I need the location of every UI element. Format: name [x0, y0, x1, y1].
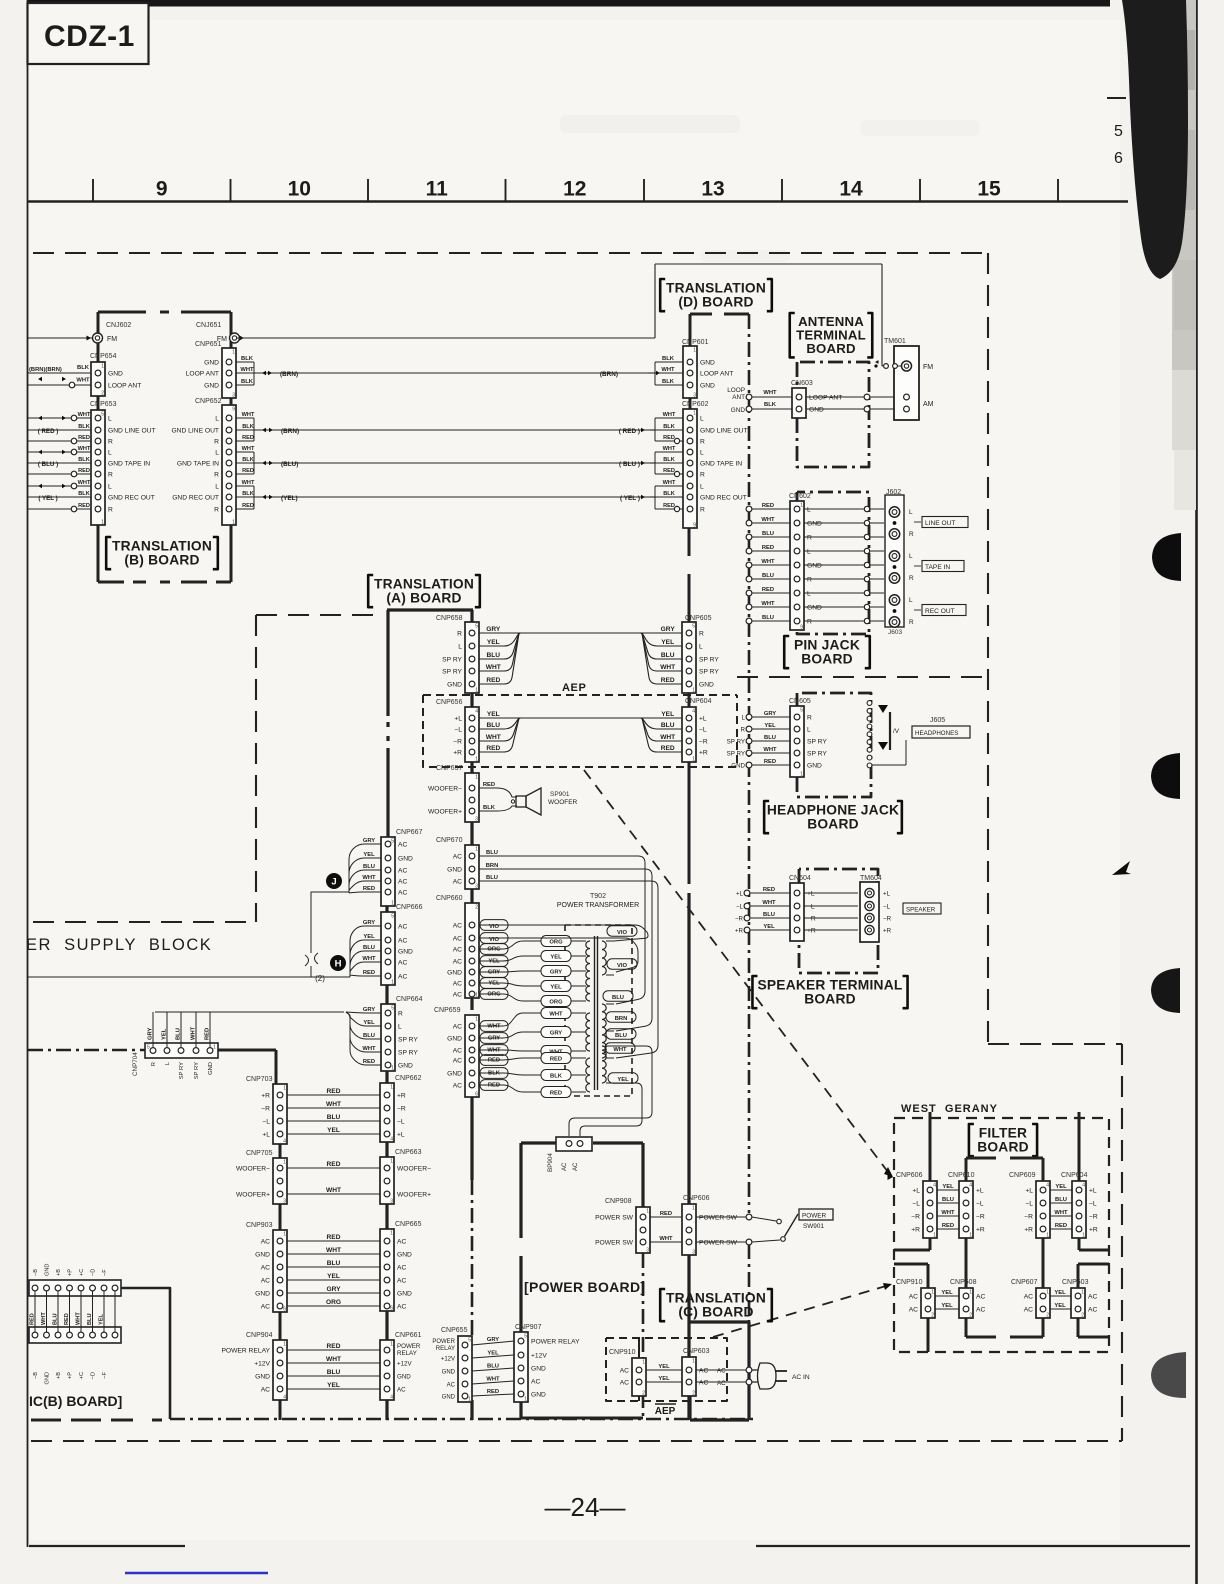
svg-text:GND: GND [807, 562, 822, 569]
svg-text:TM604: TM604 [860, 875, 882, 882]
svg-text:BLU: BLU [327, 1114, 341, 1121]
svg-text:(BRN): (BRN) [280, 371, 298, 378]
svg-text:WHT: WHT [486, 1377, 500, 1383]
svg-text:+R: +R [1024, 1226, 1033, 1233]
svg-text:/V: /V [893, 728, 900, 735]
svg-text:CNP910: CNP910 [609, 1349, 636, 1356]
svg-text:AC: AC [453, 878, 462, 885]
svg-text:YEL: YEL [763, 924, 775, 930]
svg-text:YEL: YEL [162, 1028, 168, 1040]
svg-text:CNP660: CNP660 [436, 895, 463, 902]
top black bar [27, 0, 1110, 7]
svg-text:−L: −L [807, 903, 815, 910]
D board left border segments [689, 314, 692, 346]
svg-text:−R: −R [261, 1105, 270, 1112]
svg-text:L: L [458, 643, 462, 650]
svg-text:BOARD: BOARD [807, 816, 859, 831]
svg-text:−R: −R [1089, 1213, 1098, 1220]
svg-text:−D: −D [91, 1269, 97, 1276]
svg-text:−R: −R [453, 738, 462, 745]
svg-text:BLK: BLK [662, 379, 675, 385]
svg-text:3: 3 [232, 393, 235, 399]
svg-text:BLU: BLU [942, 1197, 954, 1203]
svg-text:AC: AC [398, 923, 407, 930]
bundle wire to CNP704 strip [155, 1011, 344, 1013]
svg-text:WHT: WHT [78, 412, 91, 418]
connector CNP660 [465, 903, 479, 998]
board label TRANSLATION (B) BOARD [106, 537, 111, 569]
svg-text:GND: GND [45, 1372, 51, 1384]
strip connector row 2 [29, 1327, 121, 1343]
svg-text:(C) BOARD: (C) BOARD [678, 1304, 753, 1319]
svg-text:R: R [398, 1010, 403, 1017]
connector CNP670 [465, 845, 479, 889]
svg-text:CNP608: CNP608 [950, 1279, 977, 1286]
svg-text:BLK: BLK [242, 491, 254, 497]
svg-text:L: L [108, 415, 112, 422]
svg-text:WHT: WHT [191, 1026, 197, 1040]
wires CNP908-CNP606 [650, 1216, 682, 1218]
svg-text:+L: +L [262, 1131, 270, 1138]
svg-text:5: 5 [468, 1338, 471, 1344]
binding hole blob 1 [1152, 533, 1181, 581]
svg-text:4: 4 [475, 709, 478, 715]
svg-text:6: 6 [1114, 150, 1123, 167]
filter board frame lines [929, 1112, 932, 1181]
ruler tick [919, 179, 921, 201]
upper-left block dashed: horizontal y922 [33, 921, 256, 923]
transformer primary coils [586, 941, 590, 1001]
connector CNP655 [458, 1336, 472, 1402]
stubs into CNP601 [654, 362, 656, 385]
svg-text:BLU: BLU [363, 1033, 375, 1039]
connector CNP705 [273, 1158, 287, 1204]
svg-text:AC: AC [976, 1293, 985, 1300]
sub-block dashed divider y677 [737, 676, 988, 678]
svg-text:BRN: BRN [486, 863, 499, 869]
svg-text:RED: RED [762, 503, 774, 509]
AEP dashed box (main) [423, 694, 737, 696]
svg-text:SP RY: SP RY [807, 750, 827, 757]
svg-text:+L: +L [1089, 1187, 1097, 1194]
svg-text:AC: AC [397, 1387, 406, 1394]
svg-text:SP RY: SP RY [727, 738, 745, 745]
svg-text:1: 1 [692, 1206, 695, 1212]
svg-text:YEL: YEL [487, 711, 500, 718]
svg-text:GND: GND [809, 406, 824, 413]
svg-text:4: 4 [283, 1395, 286, 1401]
svg-text:WHT: WHT [663, 412, 676, 418]
svg-text:GND: GND [807, 520, 822, 527]
FILTER BOARD label [969, 1124, 974, 1156]
POWER BOARD outline [521, 1141, 556, 1144]
svg-text:CNP654: CNP654 [90, 353, 117, 360]
svg-text:CNP666: CNP666 [396, 904, 423, 911]
svg-text:L: L [700, 483, 704, 490]
svg-text:(D) BOARD: (D) BOARD [678, 294, 753, 309]
scan corner blob [1122, 0, 1188, 279]
svg-text:1: 1 [475, 757, 478, 763]
stubs into CNP602 [654, 418, 656, 441]
svg-text:+L: +L [807, 890, 815, 897]
svg-text:CNP607: CNP607 [1011, 1279, 1038, 1286]
svg-text:T902: T902 [590, 893, 606, 900]
svg-text:YEL: YEL [764, 723, 776, 729]
svg-text:SP RY: SP RY [699, 668, 719, 675]
ruler tick [781, 179, 783, 201]
svg-text:WHT: WHT [663, 480, 676, 486]
svg-text:(B) BOARD: (B) BOARD [124, 552, 199, 567]
svg-text:RED: RED [763, 887, 775, 893]
svg-text:RED: RED [550, 1091, 562, 1097]
blue registration line [125, 1572, 268, 1575]
svg-text:RED: RED [661, 677, 675, 684]
svg-text:WHT: WHT [486, 734, 501, 741]
svg-text:L: L [215, 483, 219, 490]
svg-text:RED: RED [205, 1028, 211, 1040]
svg-text:WHT: WHT [326, 1101, 341, 1108]
svg-text:YEL: YEL [487, 639, 500, 646]
svg-text:RELAY: RELAY [436, 1346, 455, 1352]
svg-text:3: 3 [475, 884, 478, 890]
svg-text:1: 1 [524, 1397, 527, 1403]
svg-text:GRY: GRY [488, 969, 500, 975]
svg-text:1: 1 [468, 1397, 471, 1403]
stubs CNP666 left [350, 926, 381, 975]
svg-text:L: L [700, 449, 704, 456]
svg-text:RED: RED [30, 1313, 36, 1325]
svg-text:YEL: YEL [658, 1376, 670, 1382]
svg-text:CNP602: CNP602 [682, 401, 709, 408]
svg-text:+B: +B [56, 1372, 62, 1379]
dashed diagonal to filter board (2) [713, 1286, 886, 1337]
svg-text:ORG: ORG [549, 1000, 563, 1006]
svg-text:9: 9 [693, 523, 696, 529]
stubs CNP664 left to bundle [346, 1012, 381, 1013]
svg-text:WHT: WHT [362, 956, 376, 962]
pin jack board border [797, 492, 869, 634]
svg-text:−D: −D [91, 1372, 97, 1379]
svg-text:WHT: WHT [660, 664, 675, 671]
wires CNP670 to transformer secondary [479, 856, 645, 1004]
antenna board border [797, 362, 869, 467]
svg-text:SP RY: SP RY [727, 750, 745, 757]
svg-text:—24—: —24— [545, 1492, 626, 1522]
SPEAKER TERMINAL BOARD label [752, 976, 757, 1008]
svg-text:H: H [335, 959, 342, 970]
svg-text:LOOP ANT: LOOP ANT [809, 394, 842, 401]
svg-text:BOARD: BOARD [977, 1139, 1029, 1154]
svg-text:1: 1 [101, 364, 104, 370]
svg-text:GND LINE OUT: GND LINE OUT [108, 427, 156, 434]
svg-text:1: 1 [475, 775, 478, 781]
svg-text:AC: AC [398, 867, 407, 874]
svg-text:1: 1 [390, 1085, 393, 1091]
svg-text:BLU: BLU [486, 850, 498, 856]
svg-text:AC: AC [531, 1378, 540, 1385]
svg-text:WHT: WHT [487, 1047, 501, 1053]
svg-text:1: 1 [1046, 1290, 1049, 1296]
svg-text:POWER: POWER [397, 1343, 421, 1350]
svg-text:BLU: BLU [1055, 1197, 1067, 1203]
svg-text:RED: RED [363, 1059, 375, 1065]
svg-text:GND: GND [255, 1290, 270, 1297]
svg-text:GND: GND [699, 681, 714, 688]
svg-text:WHT: WHT [762, 900, 776, 906]
wires CN602 to J602 [804, 508, 867, 510]
svg-text:3: 3 [693, 393, 696, 399]
svg-text:WHT: WHT [326, 1187, 341, 1194]
svg-text:+B: +B [56, 1269, 62, 1276]
HEADPHONE JACK BOARD label [764, 801, 769, 833]
svg-text:RED: RED [327, 1161, 341, 1168]
svg-text:BLU: BLU [615, 1033, 627, 1039]
A board spine x472 [470, 610, 473, 622]
svg-text:1: 1 [642, 1360, 645, 1366]
svg-text:GRY: GRY [148, 1028, 154, 1040]
svg-text:GRY: GRY [661, 626, 676, 633]
svg-text:YEL: YEL [941, 1290, 953, 1296]
connector CNP605 [682, 622, 696, 693]
svg-text:+R: +R [976, 1226, 985, 1233]
svg-text:BLU: BLU [762, 573, 774, 579]
svg-text:GND: GND [397, 1290, 412, 1297]
svg-text:AC: AC [717, 1368, 726, 1375]
outer block dashed border top [33, 252, 988, 254]
svg-text:−L: −L [397, 1118, 405, 1125]
svg-text:1: 1 [693, 348, 696, 354]
svg-text:+L: +L [1025, 1187, 1033, 1194]
svg-text:BLU: BLU [176, 1028, 182, 1040]
svg-text:L: L [807, 726, 811, 733]
svg-text:1: 1 [800, 503, 803, 509]
svg-text:SPEAKER: SPEAKER [906, 907, 936, 914]
svg-text:RED: RED [78, 435, 90, 441]
svg-text:RED: RED [488, 1082, 500, 1088]
svg-text:AC: AC [699, 1379, 708, 1386]
A board spine x387 segments [385, 906, 388, 912]
AEP dashed box (bottom) [606, 1338, 727, 1401]
svg-text:R: R [700, 471, 705, 478]
wires CNP660 to transformer [479, 925, 648, 941]
svg-text:−L: −L [912, 1200, 920, 1207]
svg-text:AC: AC [453, 980, 462, 987]
wires D-board edge to CN604 [744, 890, 750, 896]
svg-text:AC: AC [398, 973, 407, 980]
svg-text:GND: GND [447, 1035, 462, 1042]
svg-text:CN602: CN602 [789, 493, 811, 500]
svg-text:CNP604: CNP604 [685, 698, 712, 705]
svg-text:+L: +L [397, 1131, 405, 1138]
svg-text:YEL: YEL [327, 1273, 340, 1280]
svg-text:WOOFER−: WOOFER− [397, 1165, 431, 1172]
svg-text:GRY: GRY [363, 920, 375, 926]
svg-text:CNP903: CNP903 [246, 1222, 273, 1229]
svg-text:AC: AC [398, 937, 407, 944]
svg-text:GND: GND [108, 370, 123, 377]
connector CNP661 [380, 1340, 394, 1400]
svg-text:CNP704: CNP704 [132, 1052, 139, 1076]
svg-text:(BRN): (BRN) [281, 428, 299, 435]
svg-text:BOARD: BOARD [804, 991, 856, 1006]
svg-text:GND LINE OUT: GND LINE OUT [700, 427, 748, 434]
svg-text:LOOP: LOOP [727, 387, 745, 394]
svg-text:AC: AC [453, 935, 462, 942]
svg-text:GND: GND [208, 1062, 214, 1075]
svg-text:RED: RED [242, 435, 254, 441]
svg-text:1: 1 [969, 1290, 972, 1296]
svg-text:IC(B) BOARD]: IC(B) BOARD] [29, 1393, 122, 1409]
connector CN602 [790, 501, 804, 630]
svg-text:ORG: ORG [549, 940, 563, 946]
svg-text:AC: AC [261, 1277, 270, 1284]
svg-text:+R: +R [911, 1226, 920, 1233]
svg-text:13: 13 [701, 178, 724, 201]
ANTENNA TERMINAL BOARD label [790, 313, 795, 357]
svg-text:6: 6 [475, 1092, 478, 1098]
svg-text:5: 5 [1114, 123, 1123, 140]
transformer secondary coils [602, 941, 606, 975]
AC plug [752, 1363, 776, 1389]
upper-left block dashed: horizontal y615 [256, 614, 378, 616]
svg-text:RED: RED [487, 1389, 499, 1395]
svg-text:R: R [700, 506, 705, 513]
svg-text:CNP609: CNP609 [1009, 1172, 1036, 1179]
dashed diagonal to filter board (1) [584, 770, 888, 1172]
filter connectors bottom row [921, 1288, 935, 1318]
svg-text:CN603: CN603 [791, 380, 813, 387]
connector CNP604 [682, 707, 696, 762]
svg-text:TRANSLATION: TRANSLATION [112, 538, 212, 553]
svg-text:BLK: BLK [663, 491, 675, 497]
svg-text:J: J [331, 877, 336, 888]
svg-text:WHT: WHT [78, 480, 91, 486]
svg-text:RED: RED [660, 1211, 672, 1217]
svg-text:VIO: VIO [617, 930, 627, 936]
svg-text:YEL: YEL [941, 1303, 953, 1309]
svg-text:WHT: WHT [76, 378, 90, 384]
svg-text:RED: RED [762, 587, 774, 593]
svg-text:3: 3 [390, 1199, 393, 1205]
svg-text:1: 1 [232, 520, 235, 526]
svg-text:WHT: WHT [486, 664, 501, 671]
svg-text:RED: RED [64, 1313, 70, 1325]
svg-text:BLK: BLK [242, 457, 254, 463]
svg-text:4: 4 [692, 709, 695, 715]
svg-text:CNP908: CNP908 [605, 1198, 632, 1205]
svg-text:2: 2 [1046, 1313, 1049, 1319]
svg-text:YEL: YEL [1054, 1290, 1066, 1296]
svg-text:AC: AC [1024, 1293, 1033, 1300]
svg-text:−R: −R [807, 915, 816, 922]
svg-text:WOOFER: WOOFER [548, 799, 578, 806]
svg-text:1: 1 [475, 847, 478, 853]
svg-text:AC: AC [909, 1306, 918, 1313]
upper-left block dashed: vertical x256 [255, 615, 257, 922]
svg-text:( RED ): ( RED ) [38, 428, 59, 435]
connector CNP908 [636, 1207, 650, 1253]
svg-text:ORG: ORG [487, 946, 501, 952]
svg-text:9: 9 [800, 625, 803, 631]
svg-text:(A) BOARD: (A) BOARD [386, 590, 461, 605]
TRANSLATION (A) BOARD label [368, 575, 373, 607]
connector CNP667 [381, 837, 395, 906]
svg-text:−L: −L [454, 726, 462, 733]
svg-text:RED: RED [327, 1088, 341, 1095]
svg-text:5: 5 [692, 624, 695, 630]
svg-text:AC: AC [397, 1264, 406, 1271]
wire FM from left edge [28, 337, 92, 339]
svg-text:WHT: WHT [326, 1356, 341, 1363]
svg-text:+R: +R [699, 749, 708, 756]
svg-text:+P: +P [68, 1269, 74, 1276]
svg-text:BLK: BLK [483, 805, 496, 811]
dash-dot feed line to CNP704 [28, 1049, 145, 1052]
svg-text:1: 1 [283, 1232, 286, 1238]
svg-text:+L: +L [912, 1187, 920, 1194]
svg-text:11: 11 [426, 178, 449, 201]
svg-text:R: R [909, 531, 914, 538]
svg-text:CNP657: CNP657 [436, 765, 463, 772]
svg-text:CNP670: CNP670 [436, 837, 463, 844]
svg-text:AC: AC [397, 1238, 406, 1245]
svg-text:CNP610: CNP610 [948, 1172, 975, 1179]
transformer dashed box [565, 925, 632, 1096]
ruler tick [643, 179, 645, 201]
svg-text:WHT: WHT [1054, 1210, 1068, 1216]
svg-text:J605: J605 [930, 717, 945, 724]
secondary WHT/YEL wires to BP904 [569, 1046, 652, 1136]
connector CNP651 [222, 348, 236, 398]
svg-text:CNP663: CNP663 [395, 1149, 422, 1156]
svg-text:CNP656: CNP656 [436, 699, 463, 706]
svg-text:CNP603: CNP603 [1062, 1279, 1089, 1286]
svg-text:WHT: WHT [763, 747, 777, 753]
svg-text:( RED ): ( RED ) [619, 428, 640, 435]
svg-text:AC: AC [453, 958, 462, 965]
svg-text:GND: GND [45, 1264, 51, 1276]
wires to CNP653 from left edge [28, 417, 91, 419]
wires CN603 to TM601 [806, 396, 902, 398]
svg-text:AC: AC [398, 841, 407, 848]
svg-text:AC: AC [453, 991, 462, 998]
svg-text:WHT: WHT [763, 390, 777, 396]
svg-text:BLU: BLU [762, 531, 774, 537]
svg-text:1: 1 [931, 1290, 934, 1296]
circled H [330, 955, 346, 971]
svg-text:1: 1 [283, 1342, 286, 1348]
svg-text:−R: −R [735, 915, 744, 922]
long (2) wire to left edge [28, 976, 350, 978]
svg-text:+R: +R [883, 927, 892, 934]
svg-text:GND: GND [807, 604, 822, 611]
svg-text:1: 1 [213, 1045, 216, 1051]
svg-text:( YEL ): ( YEL ) [620, 495, 640, 502]
svg-text:1: 1 [475, 993, 478, 999]
svg-text:YEL: YEL [617, 1077, 629, 1083]
svg-text:FM: FM [923, 364, 933, 371]
svg-text:POWER RELAY: POWER RELAY [531, 1338, 580, 1345]
svg-text:+L: +L [699, 715, 707, 722]
svg-text:+C: +C [79, 1372, 85, 1379]
svg-text:1: 1 [800, 772, 803, 778]
svg-text:CNJ651: CNJ651 [196, 322, 221, 329]
bottom-right page line [756, 1545, 1190, 1547]
svg-text:1: 1 [283, 1086, 286, 1092]
svg-text:LOOP ANT: LOOP ANT [186, 370, 219, 377]
svg-text:AC: AC [261, 1386, 270, 1393]
wires CNP703-CNP662 [287, 1094, 380, 1096]
